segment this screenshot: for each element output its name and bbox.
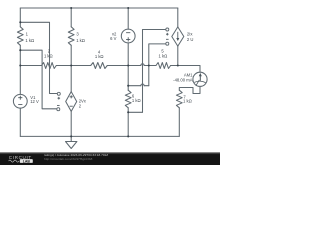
svg-text:http://circuitlab.com/c6c97f5g: http://circuitlab.com/c6c97f5gkz3b8: [44, 157, 93, 161]
svg-text:1 kΩ: 1 kΩ: [159, 54, 168, 59]
svg-text:1 kΩ: 1 kΩ: [44, 54, 53, 59]
svg-text:2 U: 2 U: [187, 37, 194, 42]
svg-text:LAB: LAB: [23, 159, 31, 163]
svg-text:1 kΩ: 1 kΩ: [183, 98, 192, 103]
svg-text:1 kΩ: 1 kΩ: [25, 38, 34, 43]
svg-text:6 V: 6 V: [110, 36, 116, 41]
svg-text:12 V: 12 V: [30, 99, 39, 104]
svg-text:2Ix: 2Ix: [187, 31, 193, 36]
svg-text:1 kΩ: 1 kΩ: [132, 98, 141, 103]
svg-text:1 kΩ: 1 kΩ: [95, 54, 104, 59]
svg-text:1 kΩ: 1 kΩ: [76, 38, 85, 43]
svg-text:-48.00 mA: -48.00 mA: [173, 78, 193, 83]
